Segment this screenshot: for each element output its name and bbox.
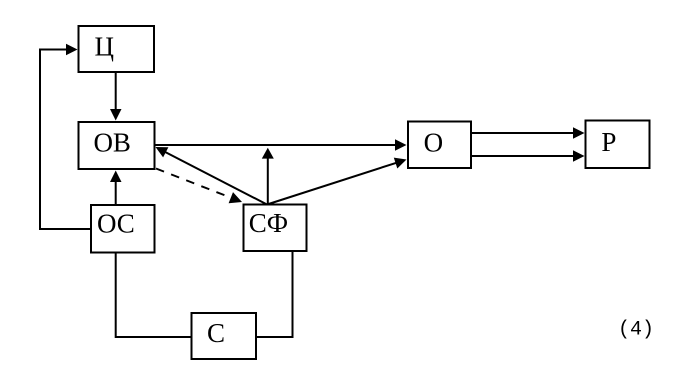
wire О to Р upper [472, 132, 576, 134]
arrowhead into ОВ top [110, 109, 122, 121]
wire feedback: ОС left to Ц left [40, 50, 91, 230]
wire Ц to ОВ [115, 73, 117, 111]
svg-text:ОС: ОС [97, 209, 135, 239]
block О [408, 122, 471, 169]
wire ОС to С [116, 254, 191, 338]
arrowhead into О left top [395, 139, 407, 151]
svg-text:Ц: Ц [95, 32, 115, 62]
wire СФ to О diagonal [267, 163, 396, 205]
arrowhead up at horizontal line [262, 148, 274, 159]
arrowhead into Р lower [573, 150, 585, 162]
wire ОС to ОВ [115, 180, 117, 204]
wire dashed ОВ to СФ [156, 169, 231, 198]
wire О to Р lower [472, 155, 576, 157]
arrowhead into Ц [66, 44, 78, 55]
svg-text:(4): (4) [618, 319, 654, 342]
block Р [586, 121, 650, 169]
arrowhead into ОВ right [156, 147, 169, 157]
block ОВ [79, 122, 155, 169]
svg-text:ОВ: ОВ [93, 128, 131, 158]
block С [192, 313, 257, 359]
block СФ [244, 205, 307, 252]
arrowhead into Р upper [573, 127, 585, 139]
wire СФ vertical up [267, 157, 269, 205]
svg-text:С: С [207, 318, 225, 348]
block ОС [91, 205, 155, 253]
wire СФ to С [257, 252, 293, 337]
block Ц [79, 26, 155, 72]
wire СФ to ОВ diagonal [163, 151, 267, 205]
svg-text:Р: Р [601, 127, 616, 157]
arrowhead into СФ top-left [229, 192, 242, 203]
wire ОВ to О horizontal [156, 144, 398, 146]
arrowhead into О left bottom [394, 158, 407, 169]
svg-text:СФ: СФ [249, 208, 288, 238]
arrowhead into ОВ bottom [110, 171, 122, 183]
svg-text:О: О [424, 127, 444, 157]
